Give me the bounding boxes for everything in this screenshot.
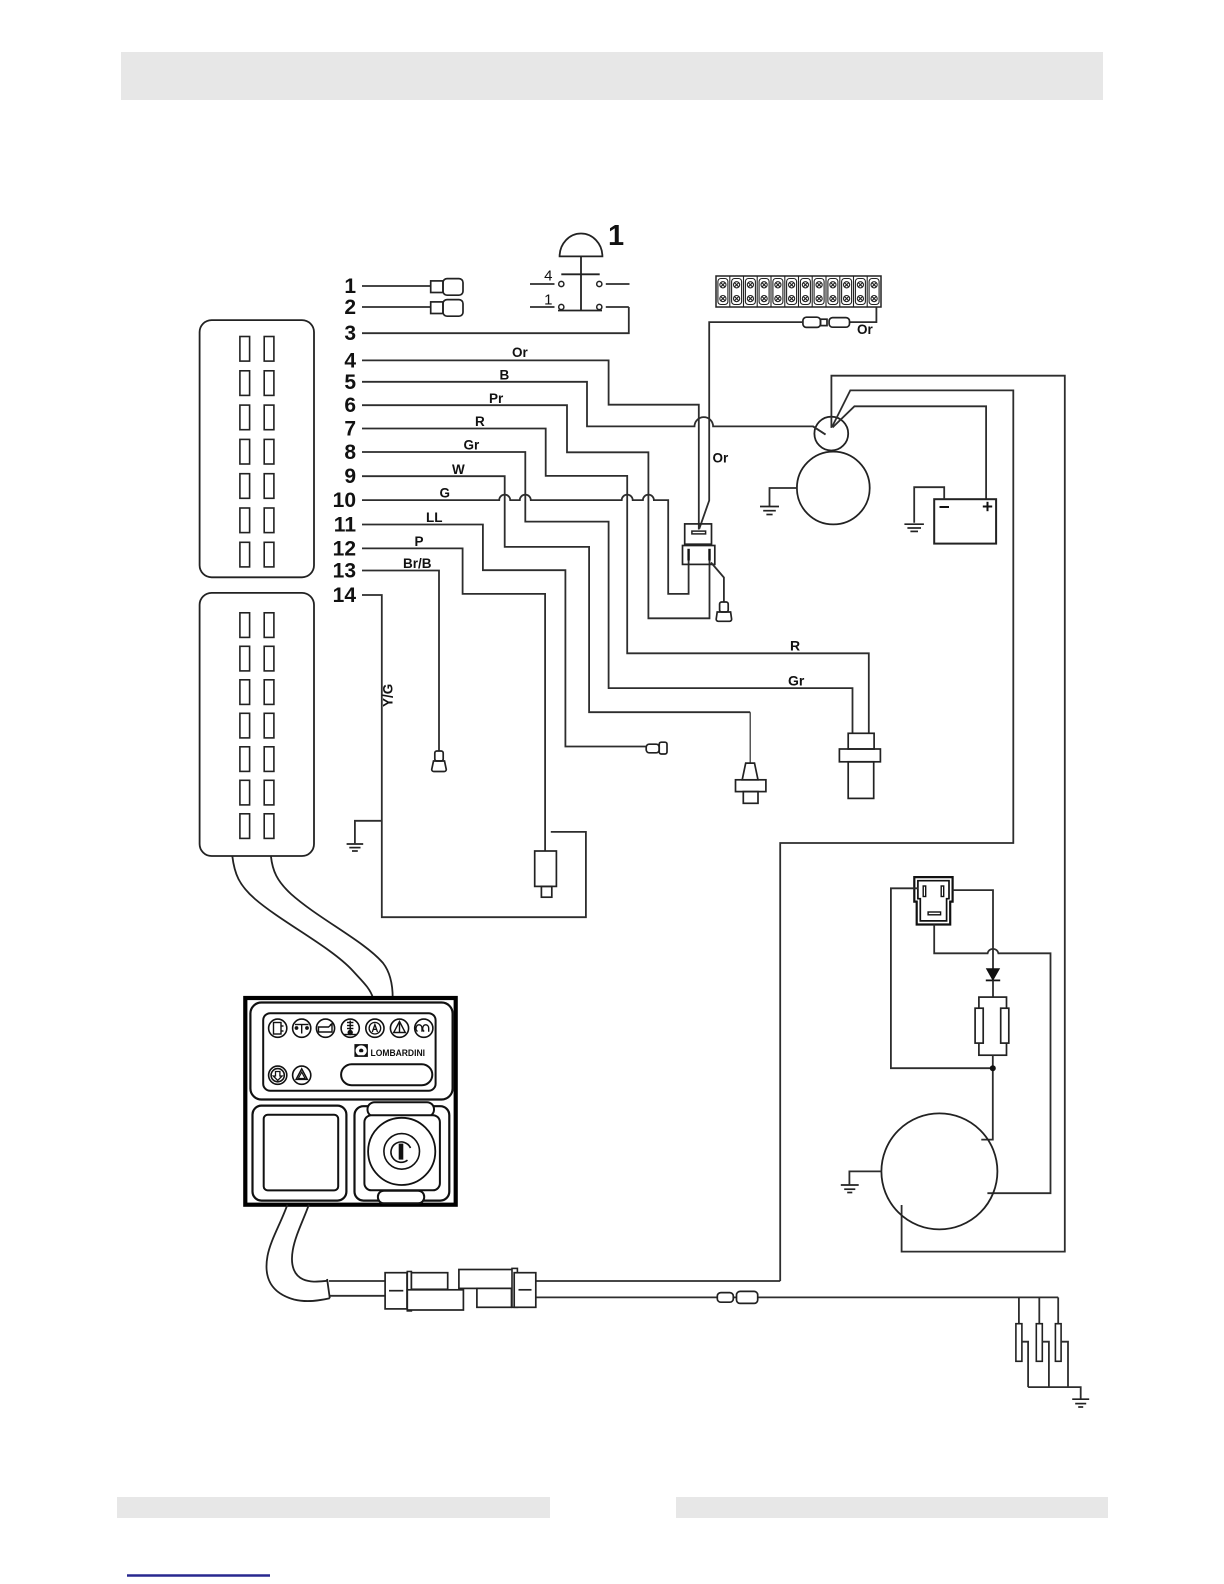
wire 5 end diagonal into regulator [813,426,826,434]
connector J1 pin slots [240,337,274,567]
wire 1 spade terminal [431,279,463,296]
wire fuse right pin to bullet connector [711,563,724,602]
key switch middle circle [384,1134,420,1170]
glow plug 2 [1036,1324,1042,1362]
pushbutton SW1 dome [560,233,603,256]
svg-text:2: 2 [344,296,356,319]
battery plus sign [983,502,992,511]
terminal block cells and screws [718,276,879,307]
diode D1 [986,969,1000,981]
resistor R1 [979,997,1007,1055]
wire regulator to top-right vertical [831,376,1064,1252]
svg-text:Y/G: Y/G [381,684,396,707]
key switch outer circle [368,1118,435,1185]
icon battery glyph [274,1023,284,1035]
key switch top tab [368,1102,435,1116]
warning lamp icons row [269,1019,433,1037]
inline connector B lower [407,1290,463,1310]
switch row 4 left contact [559,281,564,286]
wire battery negative to ground [914,487,944,523]
voltage regulator (small circle) [814,417,848,451]
inline connector block D [514,1273,536,1308]
wire cable to connector upper [329,1280,385,1282]
glow plug return wires [1022,1342,1068,1387]
wire 13 bullet connector [432,751,447,772]
wire relay bottom pin to starter (with hop) [934,925,1050,1194]
control panel outer box [245,998,455,1205]
switch row 1 left lead [530,306,555,308]
key slot [399,1144,404,1160]
inline connector bar [407,1272,411,1311]
wire 14 ground tap [355,821,382,844]
switch row 1 right contact [597,304,602,309]
wire 14 Y/G [362,595,586,917]
switch row 4 left lead [530,283,555,285]
switch bridge contact [558,310,602,312]
icon warning triangle glyph [394,1022,406,1033]
svg-text:R: R [475,414,485,429]
hour meter frame [253,1106,347,1201]
svg-text:11: 11 [334,514,357,537]
wire 10 G [362,495,689,594]
wire 3 [362,307,629,333]
footer bar left [117,1497,550,1518]
svg-text:Gr: Gr [464,438,481,453]
svg-text:1: 1 [344,275,356,298]
key switch plate [364,1115,440,1190]
wire colour labels [403,345,529,571]
icon oil pressure glyph [319,1024,333,1033]
icon engine stop (lower left) [269,1066,287,1084]
svg-text:12: 12 [333,537,356,560]
wire connector to relay riser [536,1280,780,1282]
Lombardini logo square [354,1044,368,1057]
svg-text:LOMBARDINI: LOMBARDINI [371,1048,426,1059]
battery minus sign [940,506,950,508]
icon temperature glyph [344,1021,357,1035]
ground (glow plugs) [1072,1399,1089,1407]
fuse F1 holder bottom [683,546,715,565]
wire starter to ground [849,1171,881,1184]
fuse F1 holder top [685,524,712,544]
svg-text:7: 7 [344,418,356,441]
junction node [990,1065,996,1071]
alternator (big circle) [797,452,870,525]
cable mouth [327,1279,330,1298]
connector J1 upper 14-pin body [200,320,314,577]
wire Or vertical to fuse [699,322,803,529]
wire 11 LL [362,525,646,747]
inline connector C lower [477,1288,512,1307]
fuse right pin [708,549,710,561]
svg-text:14: 14 [333,584,357,607]
switch row 4 right contact [597,281,602,286]
fuse left pin [687,549,689,561]
page header bar [121,52,1103,100]
relay K1 inner outline [918,881,949,921]
svg-text:1: 1 [544,292,552,309]
svg-text:9: 9 [344,465,356,488]
wire regulator to charge line [780,390,1013,1281]
wire 8 Gr [362,452,853,733]
wire 11 bullet terminal [646,742,667,754]
bullet connector pair (Or wire) [803,317,850,327]
svg-text:Pr: Pr [489,391,504,406]
svg-text:4: 4 [344,349,356,372]
hour meter window [264,1115,339,1191]
icon preheat glyph [295,1025,309,1034]
glow plug 3 [1055,1324,1061,1362]
ground (starter) [841,1185,859,1193]
wire diode to resistor [992,980,994,997]
svg-text:Or: Or [857,322,874,337]
svg-text:4: 4 [544,268,552,285]
key switch inner arc [391,1142,411,1162]
Lombardini logo emblem [356,1045,367,1055]
fuse element bar [692,531,706,534]
switch row 1 right lead [606,306,629,308]
wire cable to connector lower [330,1295,385,1297]
wire 5 B [362,382,826,435]
glow plug supply wire [536,1296,1058,1298]
key switch bottom tab [378,1191,424,1204]
svg-text:Or: Or [713,451,730,466]
wire 9 sensor lead [749,712,751,763]
svg-text:G: G [440,486,451,501]
bullet connector (fuse output) [716,602,731,621]
pushbutton stem [580,256,582,310]
inline connector block A [385,1273,407,1309]
ground (battery) [904,524,924,531]
svg-text:Or: Or [512,345,529,360]
starter motor M1 [881,1113,997,1229]
bullet connector (glow plug wire) [717,1291,757,1303]
svg-text:Br/B: Br/B [403,556,432,571]
ground (wire 14) [347,844,364,851]
temperature sensor [839,733,880,798]
inline connector C upper [459,1270,513,1289]
wire TB1 to fuse (Or) [850,307,877,322]
svg-text:8: 8 [344,441,356,464]
resistor R1 side plates [975,1008,1009,1043]
battery B1 [934,499,996,543]
inline connector bar 2 [512,1268,517,1307]
wire 7 R [362,429,869,734]
oil pressure switch [736,763,766,803]
svg-text:R: R [790,638,800,654]
ground (alternator) [760,507,779,515]
wire relay left pin to junction [891,888,993,1068]
connector J2 pin slots [240,613,274,839]
wire 9 W [362,476,750,712]
svg-text:P: P [415,534,424,549]
switch row 4 right lead [606,283,630,285]
svg-text:1: 1 [608,220,624,252]
footer link line [127,1574,270,1577]
wire 4 Or [362,360,699,529]
svg-text:W: W [452,462,465,477]
wire 12 P [362,548,545,851]
svg-text:6: 6 [344,394,356,417]
panel icon plate [263,1013,435,1090]
wire 13 Br/B [362,571,439,752]
svg-text:5: 5 [344,371,356,394]
relay pin slot bottom [928,912,941,915]
wire relay right pin to diode [953,890,993,969]
glow plug drop wires [1019,1297,1058,1323]
icon alternator glyph [369,1022,381,1034]
svg-text:13: 13 [333,560,356,583]
relay pin slot right [941,886,944,897]
wire 1 [362,285,431,287]
icon glow coil glyph [416,1025,429,1032]
panel slot pill [341,1064,432,1085]
inline connector B upper [411,1273,447,1290]
svg-text:LL: LL [426,510,443,525]
pushbutton crossbar [561,273,599,275]
wire resistor to starter [981,1055,993,1139]
svg-text:10: 10 [333,489,356,512]
connector J2 lower 14-pin body [200,593,314,856]
svg-text:Gr: Gr [788,672,805,688]
footer bar right [676,1497,1108,1518]
wire 2 [362,306,431,308]
panel upper section [250,1003,452,1100]
switch row 1 left contact [559,304,564,309]
cable harness J2 to control panel [232,856,373,998]
glow plug ground bus [1028,1387,1081,1398]
terminal block TB1 body [716,276,881,307]
key switch frame [355,1106,450,1200]
wire 6 Pr [362,405,710,618]
fuel stop solenoid [535,851,557,897]
cable harness panel to engine connector [266,1205,329,1301]
icon hazard (lower) [293,1066,311,1084]
wire 2 spade terminal [431,300,463,317]
glow plug 1 [1016,1324,1022,1362]
svg-text:B: B [500,368,510,383]
relay pin slot left [923,886,926,897]
wire regulator to battery positive [833,406,987,499]
glow plug relay K1 outline [914,877,952,924]
wire alternator to ground [770,488,797,506]
wire number labels [333,275,357,607]
svg-text:3: 3 [344,322,356,345]
